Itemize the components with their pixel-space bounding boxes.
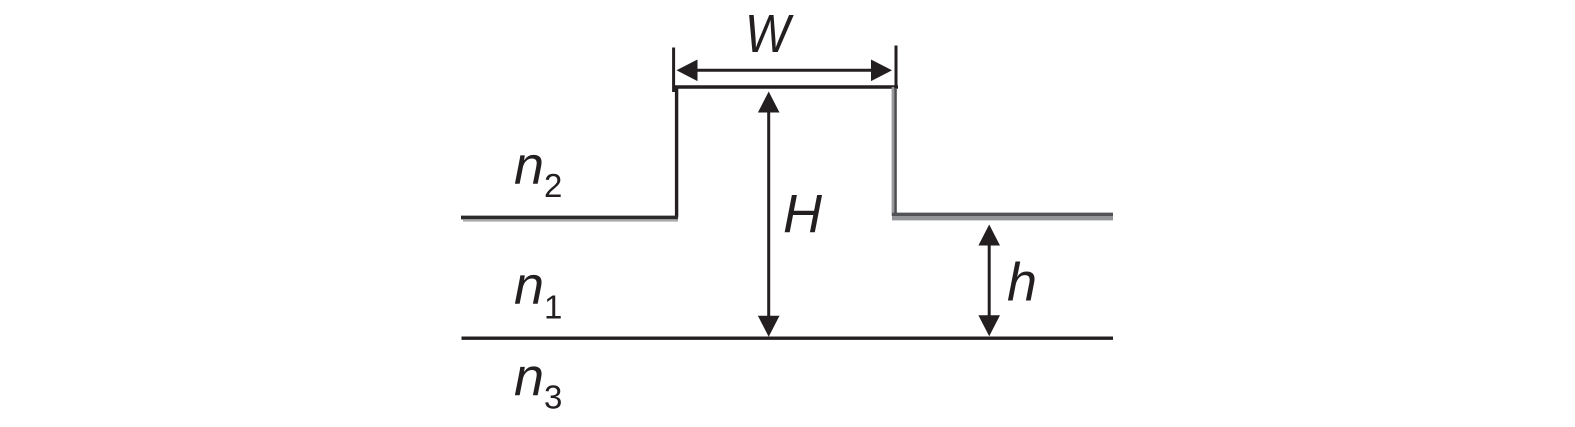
right ridge wall (light part) <box>892 87 895 216</box>
h arrowhead down <box>978 315 1000 336</box>
H arrowhead down <box>758 316 780 337</box>
left slab line soft shadow <box>463 220 678 222</box>
left ridge wall <box>675 87 678 217</box>
svg-text:W: W <box>745 4 794 64</box>
h dimension arrow line <box>988 238 991 323</box>
ridge top line <box>673 85 899 88</box>
right slab line (light lower part) <box>892 216 1113 220</box>
W dimension arrow line <box>692 69 878 72</box>
H arrowhead up <box>758 92 780 113</box>
right slab line (dark part) <box>892 213 1113 216</box>
svg-text:h: h <box>1007 253 1037 313</box>
svg-text:n1: n1 <box>514 256 562 326</box>
W arrowhead right <box>871 60 892 82</box>
svg-text:n3: n3 <box>514 348 562 416</box>
substrate bottom line <box>462 337 1114 340</box>
svg-text:n2: n2 <box>514 136 562 204</box>
h arrowhead up <box>978 225 1000 246</box>
right ridge wall (dark edge) <box>894 87 897 216</box>
H dimension arrow line <box>767 105 770 322</box>
W dimension right extension line <box>895 46 898 89</box>
svg-text:H: H <box>783 184 823 244</box>
left slab line <box>461 216 678 220</box>
W dimension left extension line <box>672 48 675 93</box>
W arrowhead left <box>677 60 698 82</box>
